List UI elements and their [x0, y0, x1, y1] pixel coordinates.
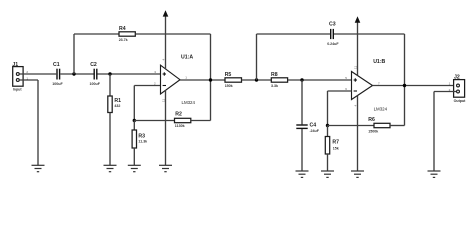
connector J1 [13, 67, 23, 87]
svg-text:23.7k: 23.7k [119, 38, 128, 42]
junction C3 tap node [255, 78, 258, 81]
svg-text:100uF: 100uF [52, 82, 63, 86]
wire J1 pin2 to C1 [20, 73, 57, 75]
resistor R3 [132, 130, 136, 148]
resistor R4 [119, 32, 135, 36]
wire inverting riser down to R6 R7 node [327, 91, 329, 126]
wire C3 riser [256, 34, 258, 80]
wire R4 feedback top run left [74, 33, 119, 35]
svg-text:C2: C2 [90, 62, 97, 68]
wire R1 bottom lead [109, 113, 111, 166]
wire opamp A inverting input [134, 85, 160, 87]
wire R3 top lead [133, 121, 135, 131]
VCC arrow symbol right [355, 16, 361, 22]
wire node to R2 [134, 120, 174, 122]
VCC arrow symbol left [163, 10, 169, 16]
op-amp U1:A [161, 65, 181, 94]
resistor R1 [108, 96, 112, 113]
svg-text:R2: R2 [175, 112, 182, 118]
svg-text:C1: C1 [53, 62, 60, 68]
wire J1 pin1 horizontal [20, 79, 39, 81]
wire U1:B inverting input [328, 90, 352, 92]
svg-text:.24uF: .24uF [310, 129, 320, 133]
svg-text:R6: R6 [368, 117, 375, 123]
resistor R8 [271, 78, 287, 82]
wire R2 to output riser [191, 120, 211, 122]
U1:A minus symbol [163, 85, 166, 87]
wire J1 pin1 down to ground [37, 80, 39, 165]
wire R7 top lead [327, 126, 329, 137]
svg-text:U1:A: U1:A [181, 55, 193, 61]
junction U1:B output node [403, 84, 406, 87]
svg-text:LM324: LM324 [182, 100, 196, 105]
svg-text:Output: Output [454, 99, 467, 103]
resistor R7 [325, 137, 329, 155]
U1:B ground power lead [357, 96, 359, 172]
U1:B plus symbol [354, 78, 357, 81]
svg-text:R4: R4 [119, 26, 126, 32]
svg-text:3.3k: 3.3k [271, 84, 278, 88]
U1:A plus symbol [163, 72, 166, 75]
VCC power line for U1:A [165, 16, 167, 69]
svg-text:1130k: 1130k [175, 124, 185, 128]
svg-text:Input: Input [13, 88, 23, 92]
svg-text:15k: 15k [333, 146, 339, 150]
ground at J1 [32, 165, 45, 171]
ground at R3 [128, 165, 141, 171]
junction C4 tap node [300, 78, 303, 81]
wire U1:B output to J2 [373, 85, 458, 87]
junction U1:A output node [209, 78, 212, 81]
wire inverting riser down [133, 86, 135, 121]
wire feedback riser left [73, 34, 75, 74]
svg-text:11.3k: 11.3k [138, 140, 147, 144]
svg-text:R1: R1 [114, 98, 121, 104]
ground at R7 [321, 171, 334, 177]
svg-text:11: 11 [353, 66, 357, 69]
wire C1 to C2 [60, 73, 93, 75]
wire C4 bottom lead [301, 129, 303, 171]
wire U1:A output [180, 79, 225, 81]
wire R5 to R8 [242, 79, 272, 81]
wire output riser vertical [210, 34, 212, 121]
svg-text:J2: J2 [454, 74, 460, 80]
junction R6 R7 node [326, 124, 329, 127]
svg-text:432: 432 [114, 104, 120, 108]
svg-text:100uF: 100uF [90, 82, 101, 86]
wire C3 top run [257, 33, 331, 35]
ground at R1 [104, 165, 117, 171]
capacitor C4 [296, 125, 307, 128]
wire J2 pin2 down to ground [433, 92, 435, 172]
wire C3 feedback drop [404, 34, 406, 126]
op-amp U1:B [352, 72, 373, 100]
VCC power line for U1:B [357, 22, 359, 76]
connector J2 [454, 80, 465, 98]
svg-text:1500k: 1500k [368, 129, 378, 133]
svg-text:R8: R8 [271, 72, 278, 78]
capacitor C2 [94, 69, 97, 80]
U1:B minus symbol [354, 90, 357, 92]
resistor R5 [225, 78, 242, 82]
wire C3 to output [334, 33, 405, 35]
junction R1 tap node [108, 72, 111, 75]
svg-text:LM324: LM324 [374, 106, 388, 111]
svg-text:U1:B: U1:B [373, 59, 385, 65]
wire C2 to opamp noninverting input [98, 73, 161, 75]
resistor R2 [175, 118, 191, 122]
ground at J2 [428, 171, 441, 177]
wire node to R6 [328, 125, 375, 127]
wire R6 to feedback drop [390, 125, 405, 127]
ground at C4 [296, 171, 309, 177]
svg-text:R3: R3 [138, 133, 145, 139]
resistor R6 [374, 123, 390, 127]
wire C4 top lead [301, 80, 303, 124]
svg-text:R5: R5 [225, 72, 232, 78]
svg-text:R7: R7 [332, 139, 339, 145]
capacitor C1 [57, 69, 60, 80]
svg-text:11: 11 [161, 99, 165, 102]
svg-text:0.24uF: 0.24uF [327, 42, 339, 46]
wire R7 bottom lead [327, 154, 329, 171]
junction R2 R3 node [133, 119, 136, 122]
wire R4 to output riser [135, 33, 210, 35]
capacitor C3 [331, 29, 334, 39]
svg-text:150k: 150k [225, 84, 233, 88]
U1:A ground power lead [165, 90, 167, 165]
ground at U1:B power [351, 171, 364, 177]
svg-text:C4: C4 [310, 122, 317, 128]
junction feedback tap node [72, 72, 75, 75]
wire R1 top lead [109, 74, 111, 96]
wire R3 bottom lead [133, 148, 135, 165]
wire J2 pin2 horizontal [434, 91, 456, 93]
svg-text:C3: C3 [329, 21, 336, 27]
ground at U1:A power [159, 165, 172, 171]
svg-text:J1: J1 [12, 62, 18, 68]
wire R8 to U1:B noninverting input [288, 79, 352, 81]
